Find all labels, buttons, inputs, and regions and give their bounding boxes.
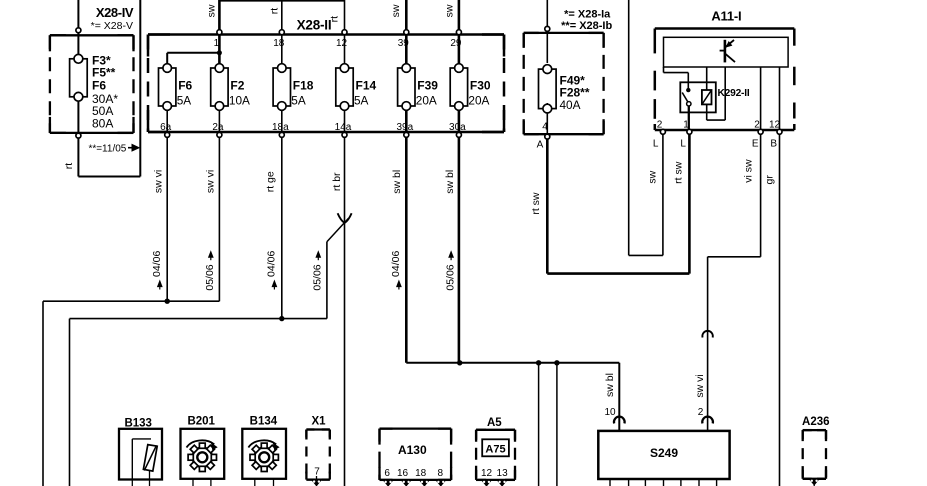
- svg-text:rt ge: rt ge: [265, 171, 277, 192]
- svg-text:sw vi: sw vi: [204, 170, 216, 193]
- svg-text:gr: gr: [764, 175, 776, 185]
- svg-text:04/06: 04/06: [266, 251, 278, 277]
- svg-text:12: 12: [481, 468, 493, 479]
- svg-text:L: L: [680, 139, 686, 150]
- svg-text:S249: S249: [650, 446, 678, 460]
- svg-text:sw vi: sw vi: [153, 170, 165, 193]
- svg-text:20A: 20A: [416, 93, 437, 107]
- svg-text:A5: A5: [487, 417, 502, 429]
- svg-text:2: 2: [698, 407, 704, 418]
- svg-text:B133: B133: [124, 418, 152, 430]
- svg-text:sw bl: sw bl: [391, 170, 403, 194]
- svg-text:sw: sw: [390, 4, 402, 17]
- svg-text:X28-II: X28-II: [297, 18, 332, 33]
- svg-text:K292-II: K292-II: [718, 88, 750, 99]
- svg-text:rt sw: rt sw: [673, 161, 685, 184]
- svg-text:rt sw: rt sw: [530, 192, 542, 215]
- svg-text:04/06: 04/06: [390, 251, 402, 277]
- svg-text:80A: 80A: [92, 116, 113, 130]
- svg-text:F2: F2: [230, 78, 244, 92]
- svg-text:2a: 2a: [212, 122, 224, 133]
- svg-text:rt br: rt br: [331, 172, 343, 191]
- svg-text:L: L: [653, 139, 659, 150]
- svg-text:10: 10: [604, 407, 616, 418]
- svg-text:20A: 20A: [468, 93, 489, 107]
- svg-text:F18: F18: [293, 78, 314, 92]
- svg-text:A11-I: A11-I: [711, 9, 741, 24]
- svg-text:sw vi: sw vi: [694, 374, 706, 397]
- svg-text:1: 1: [683, 120, 689, 131]
- svg-text:F6: F6: [92, 78, 106, 92]
- svg-text:18: 18: [415, 468, 427, 479]
- svg-text:F6: F6: [178, 78, 192, 92]
- svg-text:05/06: 05/06: [444, 264, 456, 290]
- svg-text:4: 4: [542, 122, 548, 133]
- svg-text:2: 2: [657, 120, 663, 131]
- svg-text:B201: B201: [187, 416, 215, 428]
- svg-text:05/06: 05/06: [204, 264, 216, 290]
- svg-text:A236: A236: [802, 416, 830, 428]
- svg-text:sw: sw: [444, 4, 456, 17]
- svg-text:29: 29: [450, 38, 462, 49]
- svg-text:1: 1: [214, 38, 220, 49]
- svg-text:12: 12: [769, 120, 781, 131]
- svg-text:sw bl: sw bl: [444, 170, 456, 194]
- svg-text:30a: 30a: [449, 122, 466, 133]
- svg-text:**=11/05: **=11/05: [88, 144, 126, 155]
- svg-text:X1: X1: [311, 416, 326, 428]
- svg-text:39a: 39a: [396, 122, 413, 133]
- svg-text:18a: 18a: [272, 122, 289, 133]
- svg-text:*= X28-Ia: *= X28-Ia: [564, 8, 611, 20]
- svg-text:14a: 14a: [335, 122, 352, 133]
- svg-text:F30: F30: [470, 78, 491, 92]
- svg-text:*= X28-V: *= X28-V: [91, 20, 133, 32]
- svg-text:rt: rt: [269, 8, 281, 14]
- svg-text:**= X28-Ib: **= X28-Ib: [561, 20, 612, 32]
- svg-text:05/06: 05/06: [312, 264, 324, 290]
- svg-text:rt: rt: [63, 163, 75, 169]
- svg-text:X28-IV: X28-IV: [96, 5, 134, 20]
- svg-text:16: 16: [397, 468, 409, 479]
- svg-text:7: 7: [314, 467, 320, 478]
- svg-text:sw: sw: [206, 4, 218, 17]
- svg-text:sw bl: sw bl: [604, 373, 616, 397]
- svg-text:5A: 5A: [354, 93, 369, 107]
- svg-text:sw: sw: [646, 170, 658, 183]
- svg-text:A130: A130: [398, 443, 427, 457]
- svg-text:F14: F14: [356, 78, 377, 92]
- svg-text:39: 39: [398, 38, 410, 49]
- svg-text:A75: A75: [485, 443, 505, 455]
- svg-text:F39: F39: [417, 78, 438, 92]
- svg-text:40A: 40A: [560, 98, 581, 112]
- svg-text:13: 13: [497, 468, 509, 479]
- svg-text:B: B: [770, 139, 777, 150]
- svg-text:5A: 5A: [177, 93, 192, 107]
- svg-text:B134: B134: [250, 416, 278, 428]
- svg-text:6: 6: [384, 468, 390, 479]
- svg-text:E: E: [752, 139, 759, 150]
- svg-text:6a: 6a: [160, 122, 172, 133]
- svg-text:vi sw: vi sw: [743, 159, 755, 183]
- svg-text:5A: 5A: [291, 93, 306, 107]
- svg-text:2: 2: [754, 120, 760, 131]
- svg-text:12: 12: [336, 38, 348, 49]
- svg-text:A: A: [537, 140, 544, 151]
- svg-text:8: 8: [438, 468, 444, 479]
- svg-text:10A: 10A: [229, 93, 250, 107]
- svg-text:18: 18: [273, 38, 285, 49]
- svg-text:rt: rt: [329, 16, 341, 22]
- svg-text:04/06: 04/06: [151, 251, 163, 277]
